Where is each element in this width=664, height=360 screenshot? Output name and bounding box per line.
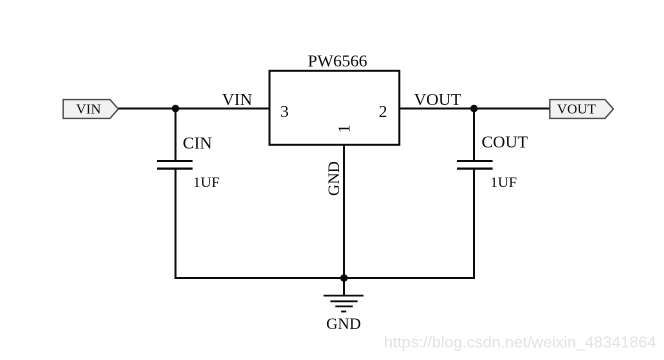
wire VIN port to pin 3 — [118, 108, 269, 110]
svg-text:VOUT: VOUT — [414, 90, 462, 109]
wire ground rail — [175, 277, 476, 279]
junction node VIN — [172, 105, 180, 113]
junction node VOUT — [470, 105, 478, 113]
junction node ground — [340, 274, 348, 282]
svg-text:PW6566: PW6566 — [308, 52, 368, 71]
svg-text:COUT: COUT — [482, 133, 529, 152]
wire GND pin 1 down to ground rail — [343, 145, 345, 278]
svg-text:VIN: VIN — [222, 90, 252, 109]
wire ground junction to ground symbol — [343, 278, 345, 296]
IC U1 PW6566 body — [270, 71, 400, 145]
svg-text:VOUT: VOUT — [557, 103, 596, 118]
port VIN — [63, 100, 118, 119]
wire VOUT node down to COUT — [473, 109, 475, 161]
svg-text:1UF: 1UF — [490, 175, 517, 191]
capacitor CIN — [157, 161, 193, 169]
svg-text:GND: GND — [326, 316, 361, 333]
ground symbol — [324, 296, 364, 312]
capacitor COUT — [457, 161, 493, 169]
wire COUT to ground rail — [473, 169, 475, 279]
svg-text:2: 2 — [379, 102, 388, 121]
wire CIN to ground rail — [175, 169, 177, 279]
wire VIN node down to CIN — [175, 109, 177, 161]
svg-text:1: 1 — [334, 124, 353, 133]
port VOUT — [550, 100, 614, 119]
svg-text:GND: GND — [326, 161, 343, 196]
svg-text:CIN: CIN — [183, 133, 212, 152]
svg-text:https://blog.csdn.net/weixin_4: https://blog.csdn.net/weixin_48341864 — [384, 334, 656, 351]
svg-text:VIN: VIN — [76, 103, 101, 118]
svg-text:3: 3 — [280, 102, 289, 121]
wire pin 2 to VOUT port — [399, 108, 549, 110]
svg-text:1UF: 1UF — [193, 175, 220, 191]
